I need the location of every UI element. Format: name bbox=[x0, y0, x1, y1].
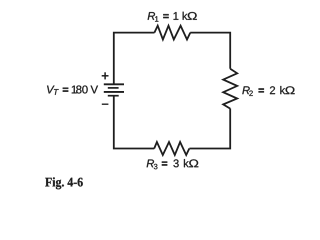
caption Fig. 4-6 bbox=[45, 178, 51, 187]
label R1 = 1 kOhm bbox=[148, 12, 155, 20]
label R3 = 3 kOhm bbox=[147, 160, 154, 168]
resistor R3 bbox=[154, 142, 189, 155]
label R2 = 2 kOhm bbox=[242, 86, 249, 94]
battery V_T plate 3 (long) bbox=[104, 91, 124, 93]
resistor R1 bbox=[154, 26, 190, 40]
battery V_T plate 2 (short) bbox=[108, 87, 119, 89]
wire: top rail right + right rail upper (R1 to R2) bbox=[190, 33, 230, 69]
polarity - sign bbox=[102, 103, 109, 105]
battery V_T plate 1 (long, +) bbox=[104, 83, 124, 85]
battery V_T plate 4 (short, -) bbox=[108, 95, 119, 97]
wire: bottom rail left + left rail lower (R3 to battery - terminal) bbox=[114, 96, 155, 149]
label VT = 180 V bbox=[47, 86, 54, 94]
wire: left rail upper + top rail left (battery + terminal to R1) bbox=[114, 33, 155, 85]
wire: right rail lower + bottom rail right (R2 to R3) bbox=[189, 109, 230, 149]
polarity + sign bbox=[102, 72, 109, 79]
resistor R2 bbox=[223, 69, 237, 109]
